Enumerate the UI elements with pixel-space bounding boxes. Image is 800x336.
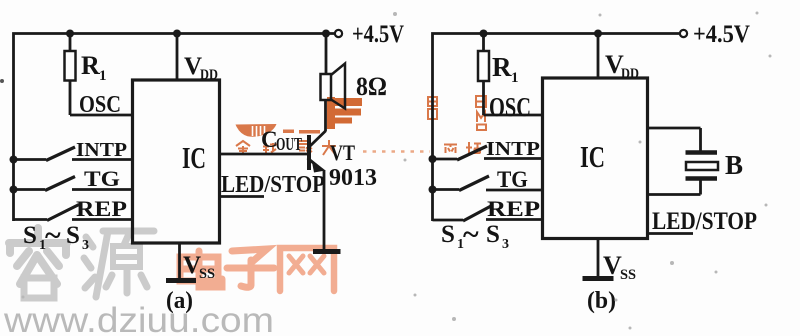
svg-text:REP: REP [487,196,540,221]
svg-text:(b): (b) [587,288,616,314]
svg-text:8Ω: 8Ω [356,72,387,101]
svg-text:~: ~ [45,219,61,252]
svg-text:OSC: OSC [489,92,531,122]
svg-text:~: ~ [463,218,479,251]
svg-text:LED/STOP: LED/STOP [221,172,325,198]
svg-text:LED/STOP: LED/STOP [652,208,757,235]
svg-text:3: 3 [82,238,89,253]
svg-text:R: R [81,51,100,80]
svg-text:DD: DD [200,67,218,83]
svg-text:www.dziuu.com: www.dziuu.com [3,301,274,336]
svg-text:S: S [486,221,500,248]
svg-text:INTP: INTP [486,138,540,160]
svg-text:SS: SS [199,266,215,282]
svg-text:IC: IC [182,140,206,175]
svg-text:1: 1 [511,70,519,86]
svg-text:TG: TG [497,167,528,192]
svg-text:TG: TG [84,166,120,191]
svg-text:IC: IC [580,139,605,174]
svg-text:OSC: OSC [79,92,121,118]
svg-text:VT: VT [330,140,355,165]
svg-text:DD: DD [621,66,639,82]
svg-text:OUT: OUT [276,134,302,154]
svg-text:(a): (a) [166,288,193,314]
svg-text:B: B [725,150,743,180]
svg-text:+4.5V: +4.5V [352,21,404,48]
svg-text:REP: REP [76,196,127,221]
svg-text:3: 3 [502,237,509,252]
svg-text:1: 1 [99,68,107,84]
svg-text:SS: SS [620,267,636,283]
svg-text:R: R [492,52,512,82]
svg-text:9013: 9013 [329,165,377,191]
svg-text:S: S [441,221,455,248]
svg-text:S: S [23,222,37,249]
svg-text:S: S [66,222,80,249]
svg-text:INTP: INTP [76,139,127,161]
svg-text:+4.5V: +4.5V [693,21,750,48]
